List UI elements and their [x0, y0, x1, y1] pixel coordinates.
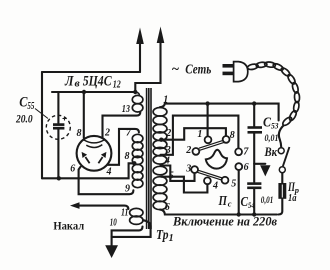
- capacitor C54: [247, 184, 261, 188]
- svg-text:~: ~: [172, 61, 180, 76]
- wire: tube pin 4 to winding 7: [108, 129, 139, 165]
- svg-text:9: 9: [125, 183, 130, 194]
- svg-text:6: 6: [244, 162, 249, 173]
- svg-text:0,01: 0,01: [261, 196, 274, 206]
- node: mains top at contact 1: [205, 101, 209, 105]
- node: mains top at C53: [252, 101, 256, 105]
- svg-text:1: 1: [197, 129, 202, 140]
- wire: winding 12 entry stub: [135, 92, 139, 96]
- capacitor C55 top lead: [57, 92, 59, 123]
- wire: transformer tap 3 to selector contact 7: [161, 116, 239, 155]
- svg-text:2: 2: [104, 128, 110, 139]
- mains plug: [223, 62, 248, 82]
- wire: B+ output arrow shaft and bend to pin 12 junction: [135, 42, 160, 92]
- leader line C55: [35, 109, 48, 119]
- node: tap 2 junction: [159, 138, 163, 142]
- svg-text:55: 55: [27, 101, 34, 112]
- svg-text:в: в: [75, 79, 81, 90]
- svg-text:Накал: Накал: [53, 221, 84, 233]
- wire: tube pin 2 to winding 13: [103, 112, 141, 137]
- svg-text:53: 53: [271, 121, 279, 131]
- transformer primary winding 1-6 (right): [153, 108, 167, 210]
- svg-text:8: 8: [230, 130, 235, 141]
- wire: transformer tap 2 to selector contact 8: [161, 128, 226, 140]
- capacitor C55 (electrolytic in dashed can): [46, 115, 70, 139]
- node: C55+/pin8 junction: [82, 90, 86, 94]
- contact 5: [222, 177, 229, 184]
- transformer winding 8-9 (left): [132, 164, 143, 187]
- svg-text:Л: Л: [64, 73, 74, 89]
- svg-text:4: 4: [212, 180, 218, 191]
- svg-text:54: 54: [248, 200, 255, 210]
- wire: winding 10 inner loop hook: [112, 227, 143, 237]
- wire: tube pin 8 vertical: [83, 92, 85, 138]
- capacitor C54 bottom lead: [253, 189, 255, 215]
- svg-text:4: 4: [164, 155, 170, 166]
- transformer winding 7-8 (left): [132, 134, 143, 164]
- svg-text:3: 3: [165, 145, 171, 156]
- svg-text:6: 6: [70, 163, 75, 174]
- arrowhead: chassis arrow below winding 10: [105, 245, 118, 258]
- svg-text:П: П: [218, 193, 228, 208]
- svg-text:2: 2: [165, 128, 171, 139]
- wire: winding 10 to chassis arrow: [112, 220, 151, 245]
- svg-text:2: 2: [185, 145, 191, 156]
- node: bottom line at C54: [252, 212, 256, 216]
- arrowhead: B- output arrow: [136, 28, 144, 45]
- contact 7: [235, 148, 242, 155]
- svg-text:1: 1: [169, 233, 174, 244]
- tube Lv 5Ts4S (rectifier): [77, 136, 112, 171]
- wire: Nakal filament line to winding 11: [79, 206, 128, 209]
- svg-text:8: 8: [125, 151, 130, 162]
- wire: chassis branch to down arrow: [254, 163, 265, 165]
- transformer Tr1 core: [147, 88, 151, 229]
- wire: B- output arrow shaft (top left anode arrow): [139, 43, 141, 72]
- wire: tube pin 6 to winding 9: [79, 167, 134, 194]
- arrowhead: B+ output arrow: [157, 27, 165, 44]
- wire: cord split to switch Vk: [279, 126, 284, 148]
- wire: mains top line from winding pin 1: [160, 104, 279, 121]
- wire: left vertical bus x=42: [41, 72, 43, 178]
- switch Vk: [278, 147, 289, 173]
- svg-text:3: 3: [185, 163, 191, 174]
- svg-text:5: 5: [231, 178, 236, 189]
- fuse Pr 1a: [278, 183, 286, 199]
- capacitor C55 bottom lead: [57, 130, 59, 179]
- svg-text:Вк: Вк: [264, 144, 278, 159]
- node: contact 6 drop at bottom line: [237, 212, 241, 216]
- contact 1: [205, 136, 212, 143]
- selector bridge bar 3-5: [197, 170, 222, 180]
- svg-text:Сеть: Сеть: [185, 63, 211, 78]
- contact 6: [235, 163, 242, 170]
- svg-text:4: 4: [106, 167, 112, 178]
- svg-text:0,01: 0,01: [265, 134, 279, 144]
- svg-text:5: 5: [169, 170, 174, 181]
- tube anode arrowheads: [82, 152, 88, 158]
- selector cam (four lobe): [206, 150, 227, 169]
- wire: selector contact 1 drop from mains junction: [207, 104, 209, 137]
- wire: horizontal from left arrow to left vertical bus: [42, 71, 140, 73]
- capacitor C53 top lead: [253, 104, 255, 127]
- capacitor C53 to C54 vertical: [253, 134, 255, 182]
- capacitor C53: [248, 128, 263, 133]
- svg-text:Тр: Тр: [156, 228, 169, 243]
- svg-text:10: 10: [110, 217, 117, 228]
- svg-text:20.0: 20.0: [15, 111, 32, 125]
- twisted cord from plug: [247, 61, 300, 126]
- wire: filament/B+ node horizontal y=92: [52, 91, 135, 93]
- selector bridge bar 2-8: [199, 140, 225, 150]
- contact 2: [193, 148, 200, 155]
- svg-text:11: 11: [121, 208, 128, 219]
- svg-text:6: 6: [165, 202, 170, 213]
- voltage selector Ps contacts: [191, 136, 242, 184]
- wire: switch Vk to fuse: [281, 173, 283, 183]
- wire: transformer tap 4 to selector contact 3: [161, 166, 195, 181]
- svg-text:8: 8: [77, 128, 82, 139]
- arrowhead: Nakal arrow (points left): [70, 202, 80, 209]
- contact 3: [191, 166, 198, 173]
- svg-text:Включение на 220в: Включение на 220в: [172, 214, 277, 229]
- svg-text:7: 7: [243, 147, 249, 158]
- node: C55- on ground bus: [57, 176, 61, 180]
- transformer winding 11-10 (left): [130, 208, 143, 224]
- wire: fuse bottom to mains bottom line: [278, 199, 282, 215]
- svg-text:13: 13: [122, 104, 130, 115]
- svg-text:5Ц4С: 5Ц4С: [83, 73, 113, 89]
- svg-text:1а: 1а: [288, 193, 297, 204]
- node: tap 8 junction: [132, 161, 136, 165]
- svg-text:с: с: [228, 199, 232, 209]
- contact 4: [204, 177, 211, 184]
- contact 8: [223, 136, 230, 143]
- node: pin 12 junction: [133, 90, 137, 94]
- svg-text:1: 1: [163, 94, 168, 105]
- junction node dots: [57, 90, 257, 217]
- transformer winding 12-13 (left): [132, 95, 143, 112]
- wire: ground bus bottom horizontal to tap 8: [42, 163, 134, 178]
- wire: bottom mains line from winding pin 6: [160, 210, 277, 215]
- wire: transformer tap 5 to selector contact 4: [161, 177, 207, 193]
- svg-text:12: 12: [113, 80, 121, 91]
- arrowhead: chassis arrow right side: [260, 165, 270, 176]
- wire: selector contact 6 drop to bottom mains line: [238, 170, 240, 215]
